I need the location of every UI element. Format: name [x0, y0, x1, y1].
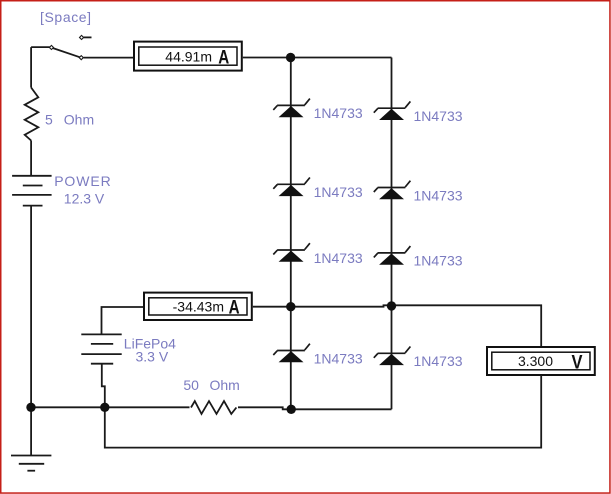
svg-text:12.3 V: 12.3 V	[64, 190, 105, 206]
svg-text:Ohm: Ohm	[64, 111, 94, 127]
wire battery top to ammeter2	[102, 307, 144, 334]
ammeter U1 outer box	[134, 42, 242, 71]
zener diode D4 1N4733	[273, 344, 310, 363]
battery V2 LiFePo4 plates	[81, 334, 121, 363]
svg-text:1N4733: 1N4733	[414, 253, 463, 269]
switch S1 blade	[53, 48, 80, 57]
zener diode D7 1N4733	[374, 246, 411, 265]
svg-text:V: V	[572, 353, 583, 374]
svg-text:3.300: 3.300	[518, 353, 553, 369]
node top junction	[286, 53, 295, 62]
wire ammeter to top node	[243, 57, 392, 59]
svg-text:1N4733: 1N4733	[314, 184, 363, 200]
wire battery bottom jog	[102, 364, 105, 408]
wire left branch vertical	[30, 47, 32, 455]
ammeter U1 inner box	[139, 47, 237, 65]
wire left diode column	[290, 58, 292, 410]
battery V1 POWER plates	[12, 176, 52, 206]
wire switch to ammeter	[84, 57, 134, 59]
wire ammeter2 to mid node	[253, 305, 541, 346]
resistor R2 50 Ohm	[190, 400, 239, 415]
svg-text:-34.43m: -34.43m	[173, 298, 224, 314]
svg-text:1N4733: 1N4733	[314, 250, 363, 266]
svg-text:A: A	[218, 48, 229, 69]
svg-text:3.3 V: 3.3 V	[136, 348, 169, 364]
switch S1 open throw stub	[84, 36, 92, 38]
switch S1 open throw terminal	[79, 35, 83, 39]
svg-text:[Space]: [Space]	[40, 9, 92, 25]
zener diode D3 1N4733	[273, 243, 310, 262]
node mid right junction	[387, 301, 396, 310]
node left rail junction	[26, 403, 35, 412]
switch S1 pole terminal	[49, 45, 53, 49]
node mid left junction	[286, 302, 295, 311]
svg-text:POWER: POWER	[54, 173, 111, 189]
node battery bottom junction	[100, 403, 109, 412]
ammeter U2 outer box	[144, 293, 252, 320]
svg-text:1N4733: 1N4733	[414, 353, 463, 369]
zener diode D8 1N4733	[374, 347, 411, 366]
zener diode D5 1N4733	[374, 101, 411, 120]
svg-text:Ohm: Ohm	[210, 377, 240, 393]
voltmeter U3 inner box	[492, 352, 590, 370]
wire ground rail y407	[31, 407, 391, 409]
wire right diode column	[391, 58, 393, 410]
resistor R1 5 Ohm	[25, 88, 39, 141]
svg-text:1N4733: 1N4733	[314, 105, 363, 121]
wire switch pole horizontal	[31, 46, 50, 48]
voltmeter U3 outer box	[487, 347, 595, 375]
svg-text:1N4733: 1N4733	[314, 350, 363, 366]
svg-text:A: A	[229, 297, 240, 318]
zener diode D2 1N4733	[273, 178, 310, 197]
switch S1 closed throw terminal	[79, 56, 83, 60]
zener diode D1 1N4733	[273, 99, 310, 118]
svg-text:1N4733: 1N4733	[414, 187, 463, 203]
node diode column bottom junction	[287, 405, 296, 414]
ammeter U2 inner box	[149, 298, 247, 315]
svg-text:5: 5	[45, 111, 53, 127]
zener diode D6 1N4733	[374, 181, 411, 200]
wire voltmeter bottom to bottom rail	[105, 375, 541, 448]
ground GND	[11, 456, 51, 471]
svg-text:44.91m: 44.91m	[165, 48, 212, 64]
svg-text:50: 50	[183, 377, 199, 393]
svg-text:1N4733: 1N4733	[414, 108, 463, 124]
